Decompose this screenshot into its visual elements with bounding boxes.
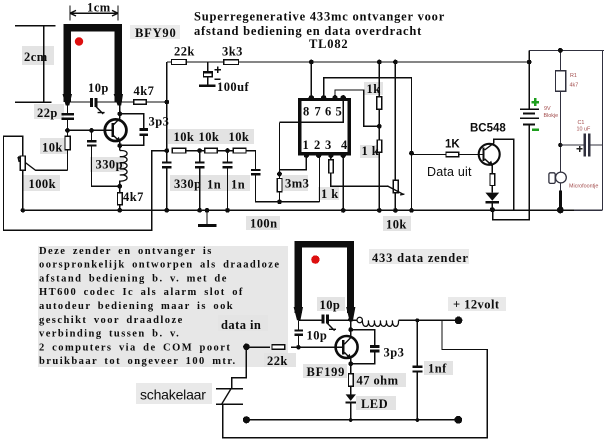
resistor 10k chain3 body <box>233 148 246 153</box>
svg-text:afstand bediening b. v. met d: afstand bediening b. v. met de <box>39 273 228 284</box>
capacitor 3p3 TX plates <box>370 345 379 348</box>
wire TX loop bottom right <box>329 319 351 321</box>
wire 22k to base <box>291 346 342 348</box>
wire R1 top stub <box>559 50 561 70</box>
op-amp IC TL082 body <box>300 100 350 154</box>
node 4k7 bus junction <box>117 208 122 213</box>
capacitor 10p trimmer TX plates <box>321 315 324 324</box>
transistor Q1 collector diagonal <box>114 118 120 124</box>
wire data-out to 1K <box>412 154 447 156</box>
wire battery minus return loop <box>493 124 529 219</box>
svg-text:3m3: 3m3 <box>285 177 309 191</box>
wire bus right section <box>574 209 603 211</box>
potentiometer 100k wiper diagonal <box>18 157 36 171</box>
wire C1 left <box>560 144 583 146</box>
wire cap c vertical to pin2 line <box>256 176 320 202</box>
svg-text:Microfoontje: Microfoontje <box>569 184 598 190</box>
LED cathode bar <box>346 401 356 403</box>
svg-text:2cm: 2cm <box>24 50 48 64</box>
node 100n junction <box>205 208 210 213</box>
node 1nf bus junction <box>415 418 419 422</box>
capacitor 100n plate <box>198 224 217 227</box>
resistor 10k chain1 body <box>172 148 185 153</box>
battery minus sign green <box>532 128 539 130</box>
node data-in junction <box>243 344 250 351</box>
wire pin3 to trimmer <box>331 173 389 186</box>
resistor 4k7 horizontal body <box>134 100 147 105</box>
antenna loop TX <box>295 241 355 313</box>
capacitor 1nf plates <box>412 366 422 368</box>
svg-text:3: 3 <box>325 138 332 152</box>
pin 4 dot <box>341 153 346 158</box>
100uf plus sign <box>214 66 221 73</box>
node C1 junction <box>558 143 562 147</box>
svg-text:3p3: 3p3 <box>384 346 405 360</box>
svg-text:geschikt voor draadloze: geschikt voor draadloze <box>39 315 184 326</box>
wire coil to +12v <box>398 319 455 321</box>
gray label patches <box>22 25 506 410</box>
svg-text:3k3: 3k3 <box>222 45 243 59</box>
trimmer 10k body <box>393 180 398 192</box>
resistor 1k top body <box>377 97 382 110</box>
wire battery top <box>528 50 530 109</box>
dimension 1cm line <box>70 6 118 21</box>
wire top rail y62 <box>167 61 529 63</box>
node mic bus junction big <box>557 207 564 214</box>
svg-text:verbinding tussen b. v.: verbinding tussen b. v. <box>39 329 180 340</box>
node 3m3 bottom junction <box>277 199 282 204</box>
resistor 10k chain2 body <box>205 148 218 153</box>
capacitor 10p trimmer RX plates <box>90 98 93 107</box>
node pin4 bus junction <box>341 208 346 213</box>
red dot RX <box>75 37 83 45</box>
svg-text:oorspronkelijk ontworpen als d: oorspronkelijk ontworpen als draadloze <box>39 260 281 271</box>
svg-text:LED: LED <box>361 397 388 411</box>
wire 10k top <box>67 130 69 136</box>
capacitor 10p lower stub <box>298 320 300 329</box>
terminal 0v left dot <box>243 416 250 423</box>
red dot TX <box>311 255 319 263</box>
wire 4k7h right <box>146 101 167 103</box>
node trimmer bus junction <box>393 208 398 213</box>
capacitor 22p plates <box>62 113 75 116</box>
main ground bus <box>23 209 576 211</box>
node base/cap junction <box>296 345 301 350</box>
resistor 10k left body <box>65 136 70 150</box>
antenna loop RX <box>64 24 123 102</box>
wire C1 right <box>590 144 602 146</box>
svg-text:autodeur bediening maar is ook: autodeur bediening maar is ook <box>39 301 234 312</box>
wire pin1 route <box>280 155 307 169</box>
node coil/330p junction <box>117 184 122 189</box>
wire 1nf to bus <box>416 373 418 420</box>
trimmer 10k wiper diagonal <box>387 186 404 195</box>
node 1k rail junction <box>377 60 382 65</box>
svg-text:3p3: 3p3 <box>149 115 170 129</box>
transistor Q3 emitter diagonal <box>485 159 493 166</box>
svg-text:1 k: 1 k <box>321 187 339 201</box>
inductor L2 coil <box>362 320 398 326</box>
node LED bus junction <box>349 418 353 422</box>
svg-text:10k: 10k <box>229 130 250 144</box>
switch blade diagonal <box>222 389 231 403</box>
svg-text:8: 8 <box>303 105 310 119</box>
svg-text:+ 12volt: + 12volt <box>453 298 500 312</box>
battery 9V plate short 2 <box>523 112 535 114</box>
wire base node horizontal <box>68 129 112 131</box>
wire pin8 up <box>310 62 312 98</box>
wire TX loop bottom left <box>299 319 322 321</box>
battery 9V plate long top <box>520 108 539 110</box>
wire pin4 route <box>342 155 344 210</box>
wire collector up <box>350 319 352 338</box>
pin 5 dot <box>341 95 346 100</box>
LED triangle <box>346 394 356 401</box>
wire 1k second bottom <box>378 152 380 210</box>
battery plus sign green <box>531 98 539 106</box>
node battery rail junction <box>527 60 532 65</box>
battery 9V plate short 4 <box>523 123 535 125</box>
resistor 22k body <box>172 60 187 65</box>
transistor Q2 emitter arrowhead <box>346 354 352 360</box>
wire 330p bottom to coil foot <box>92 147 120 187</box>
svg-text:1cm: 1cm <box>87 1 111 15</box>
wire left column x167 <box>166 62 168 210</box>
svg-text:330p: 330p <box>96 158 124 172</box>
node pin8 rail junction <box>309 60 314 65</box>
svg-text:BC548: BC548 <box>470 123 506 135</box>
wire trimmer vertical <box>394 62 396 210</box>
switch terminal 2 <box>216 403 243 405</box>
node bus a <box>197 208 202 213</box>
node 1k junction <box>377 124 382 129</box>
svg-text:433 data zender: 433 data zender <box>372 251 469 265</box>
node chain junction b <box>225 148 230 153</box>
wire antenna bottom right segment <box>98 101 134 103</box>
transistor Q1 base bar <box>111 123 114 137</box>
wire chain seg2 <box>217 150 233 152</box>
terminal +12volt dot <box>455 317 463 325</box>
node 330p junction <box>89 128 94 133</box>
wire 10p lower to base <box>298 336 300 347</box>
wire pin3 top stub <box>330 155 332 159</box>
wire LED to bus <box>350 404 352 420</box>
svg-text:4k7: 4k7 <box>134 84 155 98</box>
node trimmer rail junction <box>393 60 398 65</box>
wire pin7 route <box>324 78 412 211</box>
svg-text:1K: 1K <box>445 139 460 151</box>
svg-text:22k: 22k <box>174 45 195 59</box>
pin 7 dot <box>321 95 326 100</box>
capacitor 1n-2 plates <box>223 161 233 163</box>
capacitor 100n stub <box>206 210 208 224</box>
wire emitter down <box>491 165 493 174</box>
wire emitter to node <box>350 358 352 374</box>
svg-text:2 computers via de COM poort: 2 computers via de COM poort <box>39 342 231 353</box>
node collector 3p3 junction <box>348 327 353 332</box>
svg-text:Data uit: Data uit <box>427 165 472 179</box>
antenna loop RX feet <box>63 94 124 106</box>
wire data-in to 22k <box>246 346 270 348</box>
svg-text:BF199: BF199 <box>307 365 346 379</box>
pin 8 dot <box>309 95 314 100</box>
resistor 4k7 vertical body <box>118 193 123 205</box>
wire collector from antenna foot <box>119 102 121 119</box>
wire top rail right section <box>529 49 604 51</box>
svg-text:100k: 100k <box>29 177 57 191</box>
svg-text:4: 4 <box>341 138 348 152</box>
svg-text:1nf: 1nf <box>428 362 447 376</box>
wire return branch <box>223 320 487 437</box>
wire 1k top stub <box>378 62 380 97</box>
wire 4k7 to bus <box>119 205 121 211</box>
node data-out junction <box>409 151 414 156</box>
svg-text:afstand bediening en data over: afstand bediening en data overdracht <box>194 24 422 38</box>
transistor Q2 base bar <box>342 340 345 355</box>
transistor Q3 collector diagonal <box>485 143 494 150</box>
capacitor 10p lower plates <box>295 329 303 331</box>
microphone body rect <box>549 173 555 184</box>
100uf minus sign <box>214 78 220 80</box>
capacitor 3p3 plates <box>139 128 147 131</box>
wire cap b vertical <box>227 151 229 211</box>
potentiometer 100k arrow barbs <box>18 157 23 162</box>
node collector/3p3 junction <box>117 112 122 117</box>
node chain-left junction <box>164 148 169 153</box>
resistor 47ohm body <box>349 374 354 387</box>
svg-text:1k: 1k <box>367 82 381 96</box>
wire pin2 route <box>319 155 321 202</box>
wire 47ohm to LED <box>350 386 352 394</box>
wire pin5 3m3 branch <box>279 122 281 178</box>
svg-text:100uf: 100uf <box>217 80 250 94</box>
transistor Q2 BF199 circle <box>336 336 358 358</box>
svg-text:Blokje: Blokje <box>544 113 559 119</box>
wire 3p3 bottom branch <box>352 353 375 364</box>
wire pot wiper horizontal <box>36 169 68 171</box>
potentiometer 100k body <box>20 156 25 170</box>
svg-text:Deze zender en ontvanger is: Deze zender en ontvanger is <box>39 246 213 257</box>
wire 3m3 bottom <box>279 192 281 202</box>
svg-text:22k: 22k <box>267 354 288 368</box>
svg-text:HT600 codec Ic als alarm slot: HT600 codec Ic als alarm slot of <box>39 287 244 298</box>
wire antenna bottom <box>68 101 91 103</box>
wire 1nf vertical <box>416 320 418 365</box>
transistor Q3 base bar <box>482 148 484 162</box>
wire switch feed <box>232 347 247 389</box>
svg-text:9V: 9V <box>544 106 551 112</box>
svg-text:6: 6 <box>325 105 332 119</box>
svg-text:22p: 22p <box>37 106 58 120</box>
wire emitter to node <box>119 141 121 151</box>
capacitor 100uf bottom plate <box>199 85 216 88</box>
node 3m3 top junction <box>277 172 282 177</box>
wire right edge vertical <box>602 50 604 210</box>
inductor L2 lead <box>351 319 357 321</box>
resistor emitter body <box>490 174 495 186</box>
capacitor C1 plates <box>584 134 587 157</box>
svg-text:TL082: TL082 <box>309 37 348 51</box>
node 1nf junction <box>415 319 419 323</box>
IC internal wire to pin5 <box>280 100 344 123</box>
svg-text:5: 5 <box>336 105 343 119</box>
wire 330p top <box>91 130 93 140</box>
node 22p/10k junction <box>65 128 70 133</box>
svg-text:schakelaar: schakelaar <box>140 387 206 403</box>
wire R1 bottom to C1 node <box>559 91 561 172</box>
wire chain right end to cap <box>246 151 256 169</box>
node collector loop junction <box>348 317 353 322</box>
battery 9V plate long 3 <box>520 117 539 119</box>
capacitor C chain-left plates <box>162 161 172 163</box>
svg-text:10p: 10p <box>88 81 109 95</box>
svg-text:4k7: 4k7 <box>570 83 579 89</box>
transistor Q1 emitter arrowhead <box>115 137 120 142</box>
wire 22p bottom to base node <box>67 120 69 130</box>
diode D1 cathode bar <box>485 201 499 203</box>
svg-text:2: 2 <box>314 138 321 152</box>
wire pot bottom <box>22 170 24 210</box>
wire coil bottom <box>119 181 121 193</box>
resistor 3k3 body <box>224 60 239 65</box>
svg-text:10 uF: 10 uF <box>577 127 591 133</box>
capacitor 100uf box symbol <box>204 72 213 77</box>
pin 2 dot <box>316 153 321 158</box>
svg-text:10p: 10p <box>320 298 341 312</box>
node chain junction a <box>197 148 202 153</box>
wire 3p3 top branch <box>351 330 375 346</box>
svg-text:4k7: 4k7 <box>123 190 144 204</box>
capacitor 330p plates <box>87 140 97 142</box>
svg-text:1 k: 1 k <box>362 144 380 158</box>
antenna loop TX feet <box>294 307 356 320</box>
transistor Q1 circle <box>105 119 127 141</box>
wire 22p top <box>67 105 69 114</box>
microphone circle <box>556 172 567 183</box>
inductor L1 coil <box>120 151 127 182</box>
wire 10k bottom <box>67 150 69 171</box>
terminal 0v right dot <box>454 416 462 424</box>
resistor 1k second body <box>377 140 381 152</box>
svg-text:data in: data in <box>221 318 261 332</box>
wire resistor to diode <box>491 186 493 193</box>
transistor Q3 BC548 circle <box>479 144 500 165</box>
capacitor 10p trimmer arrow <box>96 106 105 114</box>
diode D1 triangle <box>485 193 499 201</box>
resistor R1 4k7 body <box>555 71 565 92</box>
transistor Q2 collector diagonal <box>344 338 350 345</box>
svg-text:R1: R1 <box>570 73 577 79</box>
node pot bus junction <box>21 208 25 212</box>
node 1k bus junction <box>377 208 382 213</box>
TX ground bus <box>246 419 458 421</box>
node bus b <box>225 208 230 213</box>
svg-text:C1: C1 <box>578 120 585 126</box>
capacitor right-chain plates <box>251 169 261 171</box>
svg-text:10k: 10k <box>199 130 220 144</box>
svg-text:10k: 10k <box>174 130 195 144</box>
pin 1 dot <box>304 153 309 158</box>
wire collector route <box>494 139 514 209</box>
node emitter/3p3 junction <box>117 143 122 148</box>
pin 6 dot <box>332 95 337 100</box>
node bus x167 <box>164 208 169 213</box>
wire mic bottom thick <box>559 183 561 192</box>
resistor 1k pin3 body <box>329 160 334 173</box>
svg-text:330p: 330p <box>174 177 202 191</box>
svg-text:bruikbaar tot ongeveer 100 mtr: bruikbaar tot ongeveer 100 mtr. <box>39 356 237 367</box>
capacitor 10p trimmer TX arrow <box>327 323 336 330</box>
wire 3p3 bottom branch <box>121 136 144 145</box>
C1 plus sign <box>577 146 583 152</box>
switch terminal 1 <box>216 388 243 390</box>
capacitor 330p-2 plates <box>195 161 205 163</box>
transistor Q2 emitter diagonal <box>344 352 350 358</box>
wire pin6 route <box>335 90 379 126</box>
node pin7 bus junction <box>409 208 414 213</box>
svg-text:10k: 10k <box>42 141 63 155</box>
svg-text:1n: 1n <box>207 178 221 192</box>
svg-text:Superregenerative 433mc ontvan: Superregenerative 433mc ontvanger voor <box>194 10 445 24</box>
resistor 22k TX body <box>272 345 285 349</box>
wire 1k bottom <box>378 109 380 140</box>
pin 3 dot <box>328 153 333 158</box>
dimension 2cm line <box>15 26 56 102</box>
node emitter junction <box>348 361 353 366</box>
svg-text:1n: 1n <box>231 178 245 192</box>
capacitor 100uf top plate line <box>204 72 213 74</box>
node 4k7h junction <box>164 100 169 105</box>
resistor 3m3 body <box>277 179 282 192</box>
resistor 1K body <box>446 152 459 157</box>
wire chain seg1 <box>186 150 205 152</box>
node R1 rail junction <box>558 48 563 53</box>
node diode bus junction <box>490 207 495 212</box>
svg-text:7: 7 <box>315 105 322 119</box>
inductor L2 start loop <box>357 317 362 322</box>
wire cap a vertical <box>199 151 201 211</box>
svg-text:47 ohm: 47 ohm <box>357 374 399 388</box>
wire 1K to base <box>459 154 482 156</box>
transistor Q1 emitter diagonal <box>114 136 120 142</box>
dimension 1cm arrowheads <box>70 10 118 16</box>
transistor Q3 emitter arrowhead <box>487 161 493 167</box>
wire pot top loop <box>4 136 167 230</box>
svg-text:100n: 100n <box>250 217 278 231</box>
svg-text:10p: 10p <box>307 329 328 343</box>
svg-text:BFY90: BFY90 <box>135 26 177 40</box>
capacitor 100uf stub <box>207 62 209 85</box>
svg-text:10k: 10k <box>386 218 407 232</box>
wire 3p3 top branch <box>120 114 144 128</box>
svg-text:1: 1 <box>303 138 310 152</box>
wire diode to bus <box>491 204 493 210</box>
